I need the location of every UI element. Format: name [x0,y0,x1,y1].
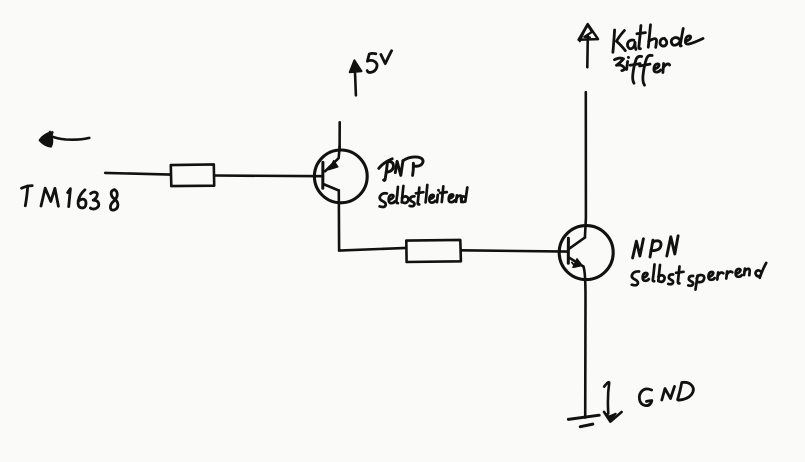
wire TM1638 to R1 [105,173,170,175]
label Kathode [613,25,703,52]
wire Q1 collector down and right to R2 [339,190,406,250]
label TM 1638 [22,186,118,211]
wire Q1 emitter to 5V rail [338,122,341,150]
resistor R2 [406,240,461,262]
transistor Q1 PNP [314,146,367,203]
arrow GND (down) [604,382,622,421]
label NPN [633,236,679,258]
arrow Kathode Ziffer (up) [579,24,598,67]
label Selbstleitend [380,185,468,207]
wire Q2 collector up to Kathode arrow [585,92,586,237]
wire Q2 emitter down to GND [583,266,585,417]
resistor R1 [171,164,214,186]
arrow pointing left at TM1638 input [40,132,89,147]
label 5V [367,51,391,73]
label GND [639,382,693,405]
transistor Q2 NPN [559,226,613,280]
ground symbol [568,415,599,427]
label Selbstsperrend [632,263,766,290]
power arrow 5V [350,60,362,95]
label PNP [379,157,423,181]
wire R2 to Q2 base [461,250,568,251]
label Ziffer [615,55,670,85]
wire R1 to Q1 base [214,174,323,177]
